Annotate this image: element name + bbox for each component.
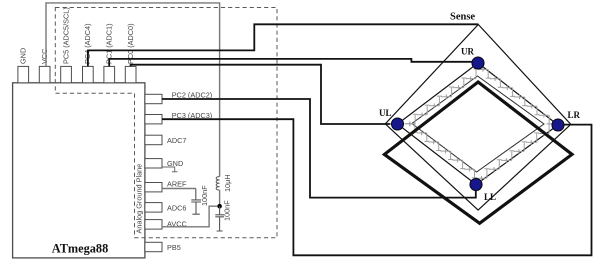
pin GND (top) <box>18 48 29 83</box>
pin VCC (top) <box>39 49 50 83</box>
svg-text:ATmega88: ATmega88 <box>52 242 108 256</box>
svg-text:Analog Ground Plane: Analog Ground Plane <box>135 164 144 234</box>
wire PC2 to LL <box>162 99 476 198</box>
resistor chain UR-LR <box>478 67 552 124</box>
node diamond (resistive layer outer edge) <box>398 63 559 185</box>
outer thin diamond (sense layer) <box>385 25 571 211</box>
IC U1 ATmega88 body <box>13 83 145 258</box>
svg-text:UR: UR <box>461 47 474 57</box>
pin PC2 (ADC2) <box>145 91 212 104</box>
pin ADC6 <box>145 203 187 213</box>
wire PC0 to UL <box>131 65 391 124</box>
VCC wire (gray) from VCC pin up across and down to inductor <box>46 3 220 177</box>
dashed analog ground plane boundary <box>55 8 277 238</box>
svg-text:ADC6: ADC6 <box>167 203 186 212</box>
svg-text:UL: UL <box>379 108 392 118</box>
svg-text:LL: LL <box>484 192 496 202</box>
svg-text:AREF: AREF <box>167 180 187 189</box>
svg-text:PB5: PB5 <box>167 243 181 252</box>
pin PC5 (ADC5/SCL) <box>61 7 72 83</box>
thick diamond (drive layer) <box>384 82 572 223</box>
inner diamond (resistive layer inner edge) <box>412 76 544 172</box>
svg-text:LR: LR <box>568 110 581 120</box>
pin GND (right) <box>145 159 183 168</box>
svg-text:Sense: Sense <box>450 12 475 23</box>
node LR <box>552 119 564 131</box>
pin PC3 (ADC3) <box>145 111 212 124</box>
AREF wire <box>162 188 196 190</box>
pin PC4 (ADC4) <box>83 23 94 82</box>
resistor chain UL-LL <box>405 122 477 179</box>
wire PC4 to Sense (top layer) <box>88 24 478 66</box>
svg-text:PC0 (ADC0): PC0 (ADC0) <box>126 23 135 64</box>
AVCC wire <box>162 206 217 227</box>
inductor L1 10uH coil <box>216 177 219 190</box>
junction node <box>217 204 222 209</box>
wire PC1 to UR <box>109 59 472 67</box>
svg-text:100nF: 100nF <box>223 200 232 221</box>
svg-text:VCC: VCC <box>40 49 49 64</box>
wire PC3 to LR <box>162 119 592 255</box>
resistor chain UL-UR <box>405 69 479 126</box>
pin PC1 (ADC1) <box>104 23 115 82</box>
pin PB5 <box>145 242 181 252</box>
pin AVCC <box>145 220 187 230</box>
svg-text:PC1 (ADC1): PC1 (ADC1) <box>105 23 114 64</box>
capacitor C1 100nF (AREF) <box>191 189 201 215</box>
node UL <box>391 118 403 130</box>
pin PC0 (ADC0) <box>125 23 136 82</box>
svg-text:ADC7: ADC7 <box>167 136 186 145</box>
svg-text:100nF: 100nF <box>200 185 209 206</box>
svg-text:GND: GND <box>19 48 28 64</box>
node UR <box>472 57 484 69</box>
resistor chain LL-LR <box>476 124 551 181</box>
svg-text:10µH: 10µH <box>223 174 232 192</box>
pin AREF <box>145 180 187 192</box>
svg-text:GND: GND <box>167 159 183 168</box>
capacitor C2 100nF (AVCC decoupling) <box>215 206 224 231</box>
GND pin wire and ground bar <box>162 167 177 172</box>
pin ADC7 <box>145 135 187 145</box>
node LL <box>470 178 482 190</box>
svg-text:PC5 (ADC5/SCL): PC5 (ADC5/SCL) <box>61 7 70 64</box>
